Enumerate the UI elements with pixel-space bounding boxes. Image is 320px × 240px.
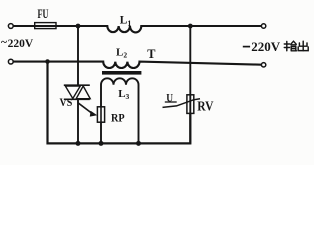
- fuse FU: [35, 23, 56, 29]
- wire bottom rail with corners: [48, 62, 191, 144]
- svg-text:~: ~: [1, 37, 7, 49]
- svg-text:L3: L3: [118, 88, 129, 101]
- svg-text:L2: L2: [116, 47, 127, 60]
- wire RV branch vertical: [189, 26, 191, 143]
- svg-text:RP: RP: [111, 111, 125, 125]
- transformer T core: [102, 71, 141, 75]
- svg-text:U: U: [166, 92, 173, 104]
- arrowhead of RP wiper: [90, 111, 97, 117]
- diac VS right triangle: [76, 86, 90, 99]
- node junction rail RP: [99, 141, 104, 146]
- diac VS left triangle: [65, 86, 80, 99]
- wire top live line with L1 coil gap: [13, 26, 261, 32]
- svg-text:L1: L1: [120, 15, 132, 28]
- wire VS gate to RP wiper: [78, 103, 92, 114]
- terminal input top: [8, 24, 13, 29]
- wire inside RP: [100, 108, 102, 122]
- svg-text:220V: 220V: [251, 39, 281, 54]
- svg-text:220V: 220V: [8, 38, 34, 50]
- diac VS bottom bar: [64, 98, 90, 100]
- wire VS branch vertical upper: [77, 26, 79, 85]
- label -220V output dash: [243, 46, 250, 48]
- varistor RV strike line: [163, 99, 201, 108]
- label U underline: [165, 101, 177, 103]
- svg-text:VS: VS: [60, 95, 73, 109]
- potentiometer RP body: [97, 107, 104, 122]
- node junction after fuse: [76, 24, 81, 29]
- diac VS top bar: [64, 84, 90, 86]
- node junction rail L3: [136, 141, 141, 146]
- wire RP bottom lead: [100, 122, 102, 143]
- terminal output top: [261, 24, 265, 28]
- varistor RV body: [187, 95, 194, 114]
- node junction rail VS: [76, 141, 81, 146]
- node junction neutral tap: [45, 59, 50, 64]
- label Chinese output char shu: [284, 41, 296, 51]
- wire neutral line through L2 winding to output: [13, 62, 261, 68]
- inductor L3 winding with RP lead: [101, 78, 139, 143]
- svg-text:FU: FU: [38, 7, 49, 21]
- terminal input bottom: [8, 59, 13, 64]
- node junction top right: [188, 24, 193, 29]
- svg-text:RV: RV: [197, 99, 214, 114]
- wire VS branch vertical lower: [77, 99, 79, 143]
- label Chinese output char chu: [298, 41, 308, 50]
- svg-text:T: T: [147, 47, 156, 61]
- terminal output bottom: [261, 63, 265, 67]
